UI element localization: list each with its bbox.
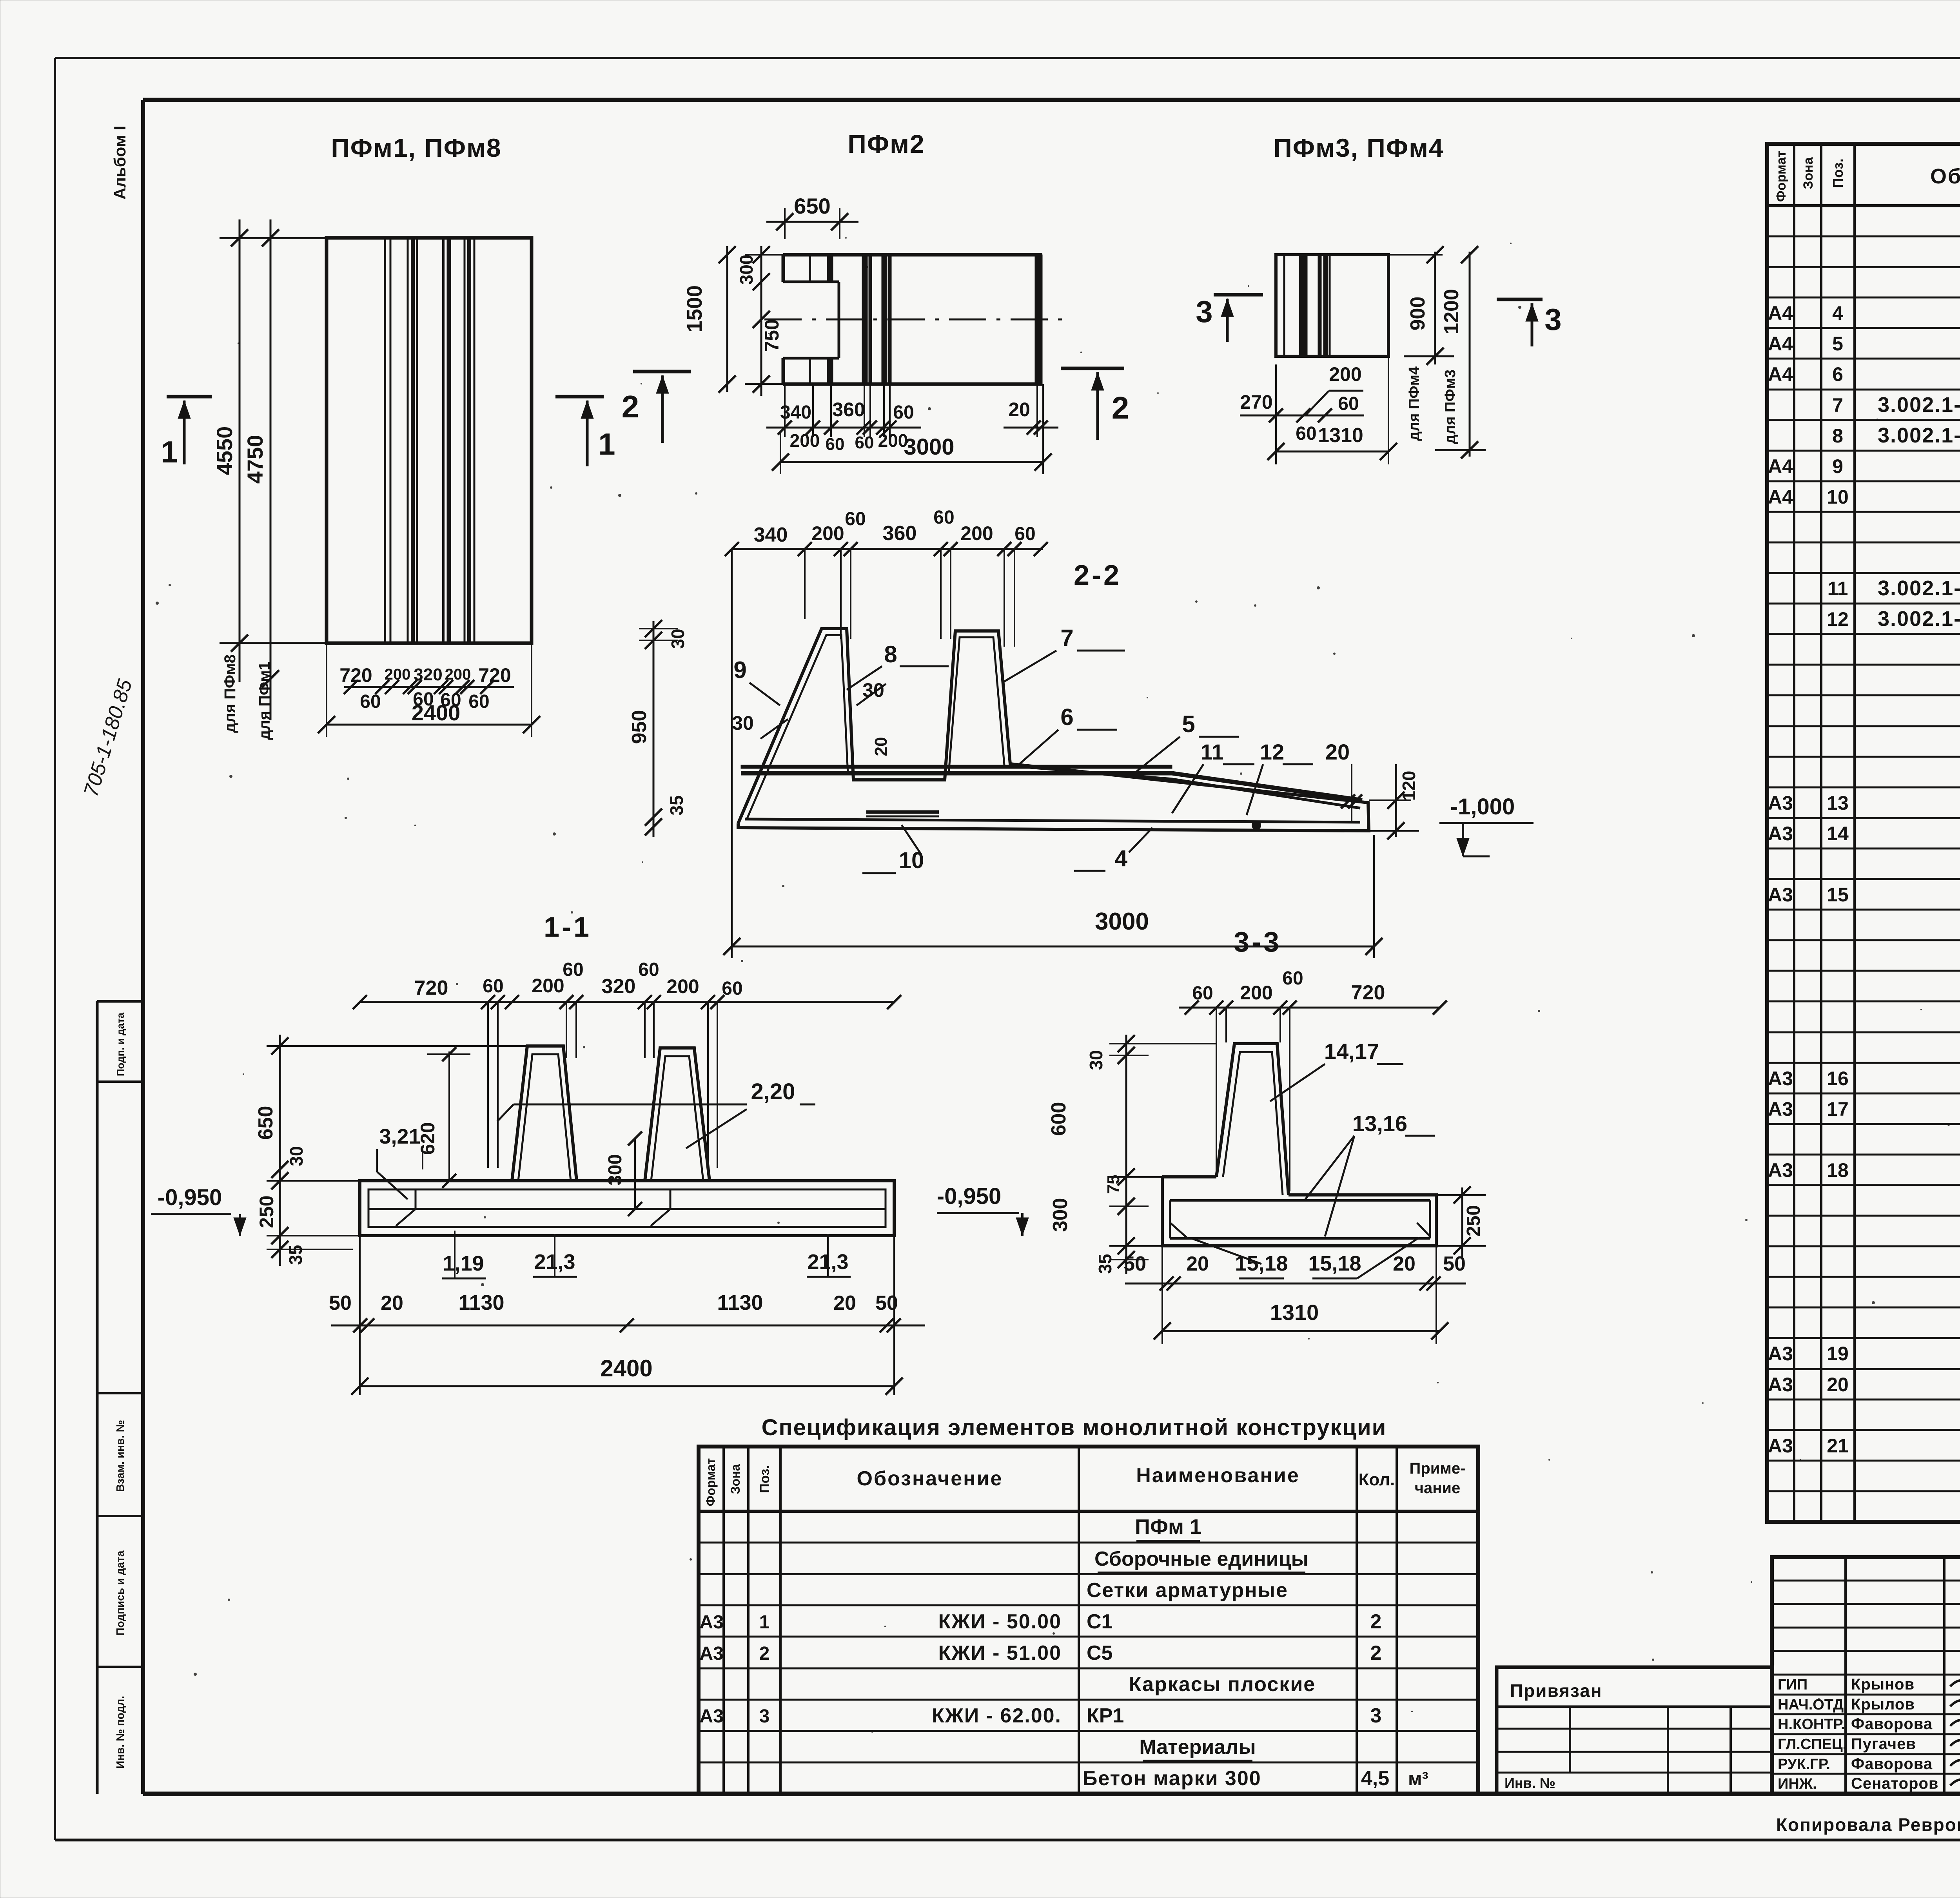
title PFm2 <box>848 129 925 158</box>
svg-text:7: 7 <box>1832 394 1843 416</box>
svg-text:21: 21 <box>1827 1435 1849 1457</box>
svg-text:1-1: 1-1 <box>544 912 592 943</box>
svg-text:300: 300 <box>605 1154 626 1186</box>
svg-text:13: 13 <box>1827 792 1849 814</box>
svg-text:Сетки арматурные: Сетки арматурные <box>1087 1579 1288 1602</box>
2-2 leader 11 <box>1172 740 1254 813</box>
2-2 top dimension row 340 200 60 360 60 200 60 <box>725 507 1048 647</box>
svg-text:Фаворова: Фаворова <box>1851 1715 1933 1733</box>
2-2 bottom dim 3000 <box>723 549 1383 958</box>
svg-text:Альбом I: Альбом I <box>111 126 129 199</box>
PFm2 bottom dims 200/60/60/200 and 3000 <box>772 384 1052 474</box>
2-2 right dim 120 <box>1369 764 1419 839</box>
svg-text:340: 340 <box>780 402 811 423</box>
svg-text:Формат: Формат <box>704 1458 718 1506</box>
svg-text:2: 2 <box>1370 1642 1382 1664</box>
svg-text:А4: А4 <box>1768 333 1793 355</box>
2-2 top mesh bars (dark) <box>741 765 1362 808</box>
svg-text:1: 1 <box>161 435 178 469</box>
2-2 leader 8 <box>847 641 949 690</box>
svg-text:11: 11 <box>1200 740 1223 764</box>
svg-text:60: 60 <box>893 402 914 423</box>
svg-text:С1: С1 <box>1087 1610 1112 1633</box>
svg-text:2,20: 2,20 <box>751 1079 795 1104</box>
svg-text:Привязан: Привязан <box>1510 1680 1602 1701</box>
svg-text:4: 4 <box>1115 846 1127 871</box>
PFm3/4 right dims 900 and 1200 <box>1388 246 1486 459</box>
svg-text:35: 35 <box>1095 1254 1115 1274</box>
svg-text:20: 20 <box>381 1292 403 1314</box>
2-2 leader 5 <box>1137 711 1239 771</box>
svg-text:Копировала Реврова: Копировала Реврова <box>1776 1815 1960 1835</box>
svg-text:14,17: 14,17 <box>1324 1039 1379 1064</box>
svg-text:900: 900 <box>1406 297 1429 331</box>
svg-text:3.002.1-1.2-130-08: 3.002.1-1.2-130-08 <box>1878 576 1960 600</box>
svg-text:8: 8 <box>1832 425 1843 447</box>
svg-text:650: 650 <box>254 1106 277 1140</box>
svg-text:Фаворова: Фаворова <box>1851 1755 1933 1773</box>
svg-text:для ПФм1: для ПФм1 <box>256 662 273 740</box>
svg-text:200: 200 <box>385 666 411 683</box>
svg-text:Крынов: Крынов <box>1851 1676 1915 1693</box>
section mark 3 (right) <box>1497 299 1562 346</box>
3-3 leader 13,16 <box>1305 1111 1435 1236</box>
svg-text:600: 600 <box>1047 1102 1070 1136</box>
spec table grid <box>699 1447 1478 1794</box>
2-2 level mark -1,000 <box>1439 794 1534 856</box>
svg-text:Сенаторов: Сенаторов <box>1851 1775 1939 1792</box>
title section 1-1 <box>544 912 592 943</box>
svg-text:30: 30 <box>1086 1050 1106 1070</box>
svg-text:м³: м³ <box>1408 1769 1428 1789</box>
1-1 level mark -0,950 <box>151 1185 246 1236</box>
right table headers <box>1774 151 1960 202</box>
svg-text:2: 2 <box>1112 390 1129 425</box>
svg-text:ПФм2: ПФм2 <box>848 129 925 158</box>
2-2 leader 9 <box>733 657 780 705</box>
section mark 3 (left) <box>1196 294 1263 342</box>
svg-text:270: 270 <box>1240 391 1272 413</box>
svg-text:А3: А3 <box>1768 1159 1793 1181</box>
svg-text:17: 17 <box>1827 1098 1849 1120</box>
svg-text:2: 2 <box>622 389 639 424</box>
svg-text:15: 15 <box>1827 884 1849 906</box>
svg-text:20: 20 <box>1186 1253 1209 1275</box>
svg-text:650: 650 <box>794 194 830 218</box>
svg-text:ГИП: ГИП <box>1778 1677 1808 1693</box>
section mark 2 (right of PFm2) <box>1061 368 1129 440</box>
svg-text:20: 20 <box>1008 399 1030 421</box>
svg-text:200: 200 <box>532 975 564 997</box>
1-1 column 1 trapezoid <box>512 1046 577 1181</box>
svg-text:30: 30 <box>732 712 754 734</box>
1-1 left dims 650 30 250 35 <box>254 1035 527 1266</box>
svg-text:Взам. инв. №: Взам. инв. № <box>114 1420 126 1492</box>
svg-text:НАЧ.ОТД.: НАЧ.ОТД. <box>1778 1697 1848 1713</box>
svg-text:20: 20 <box>871 737 891 756</box>
plate PFm3/PFm4 plan outline <box>1276 255 1388 356</box>
svg-text:13,16: 13,16 <box>1352 1111 1407 1136</box>
svg-text:КЖИ - 50.00: КЖИ - 50.00 <box>938 1610 1062 1633</box>
plate PFm2 plan outline <box>783 255 1042 384</box>
svg-text:9: 9 <box>733 657 746 683</box>
3-3 bottom leaders 15,18 <box>1192 1238 1419 1278</box>
svg-text:11: 11 <box>1828 578 1848 600</box>
svg-text:Обозначение: Обозначение <box>857 1467 1003 1490</box>
svg-text:1200: 1200 <box>1440 289 1463 334</box>
2-2 leader 7 <box>1004 625 1125 682</box>
2-2 wedge element outline <box>738 629 1369 831</box>
svg-text:для ПФм8: для ПФм8 <box>221 654 239 733</box>
svg-text:4,5: 4,5 <box>1361 1767 1389 1790</box>
1-1 column 2 trapezoid <box>645 1048 710 1181</box>
svg-text:Инв. № подл.: Инв. № подл. <box>114 1696 126 1769</box>
labels for PFm8 / PFm1 <box>220 643 327 740</box>
svg-text:250: 250 <box>256 1195 278 1228</box>
svg-text:Наименование: Наименование <box>1136 1464 1300 1487</box>
2-2 valley mesh <box>866 812 939 816</box>
svg-text:А3: А3 <box>1768 823 1793 845</box>
privyazan reference box <box>1497 1667 1772 1794</box>
svg-text:200: 200 <box>1240 982 1272 1004</box>
svg-text:А3: А3 <box>699 1643 723 1664</box>
svg-text:12: 12 <box>1260 740 1284 764</box>
svg-text:20: 20 <box>833 1292 856 1314</box>
svg-text:А3: А3 <box>1768 1374 1793 1396</box>
svg-text:60: 60 <box>483 976 503 997</box>
spec table rows content <box>699 1515 1428 1790</box>
svg-text:60: 60 <box>563 959 583 980</box>
margin text Album I <box>111 126 129 199</box>
svg-text:-0,950: -0,950 <box>158 1185 222 1210</box>
section mark 1 (right) <box>555 397 615 466</box>
svg-text:КЖИ - 62.00.: КЖИ - 62.00. <box>932 1704 1062 1727</box>
svg-text:35: 35 <box>285 1245 306 1265</box>
svg-text:-1,000: -1,000 <box>1450 794 1515 819</box>
svg-text:ПФм1, ПФм8: ПФм1, ПФм8 <box>331 133 501 162</box>
svg-text:360: 360 <box>883 522 917 545</box>
svg-text:320: 320 <box>414 665 442 684</box>
svg-text:РУК.ГР.: РУК.ГР. <box>1778 1756 1830 1773</box>
dim 4750 (left of plate) <box>243 219 279 720</box>
svg-text:250: 250 <box>1463 1205 1484 1236</box>
svg-text:Сборочные единицы: Сборочные единицы <box>1094 1548 1308 1570</box>
svg-text:Приме-: Приме- <box>1410 1460 1466 1477</box>
svg-text:КР1: КР1 <box>1087 1704 1124 1727</box>
svg-text:50: 50 <box>1123 1253 1146 1275</box>
spec table headers <box>704 1458 1465 1506</box>
svg-text:1310: 1310 <box>1318 424 1363 447</box>
svg-text:А3: А3 <box>1768 884 1793 906</box>
svg-text:Формат: Формат <box>1774 151 1789 202</box>
3-3 left dims 30 600 75 300 35 <box>1047 1035 1216 1274</box>
plate PFm2 joint bars <box>862 255 891 384</box>
dim 4550 (left of plate) <box>212 219 327 682</box>
3-3 slab outline <box>1162 1177 1436 1246</box>
svg-text:720: 720 <box>414 977 448 999</box>
svg-text:60: 60 <box>1282 968 1303 989</box>
1-1 anchor hooks in slab <box>396 1189 670 1226</box>
left margin strip (inv / signature cells) <box>97 1001 143 1794</box>
2-2 junction dot on bottom edge <box>1252 821 1261 830</box>
2-2 bottom mesh bar <box>745 819 1360 822</box>
2-2 leader 10 <box>862 825 924 873</box>
svg-text:Подп. и дата: Подп. и дата <box>114 1012 126 1076</box>
svg-text:Материалы: Материалы <box>1139 1736 1256 1758</box>
svg-text:3: 3 <box>1196 294 1212 329</box>
svg-text:1130: 1130 <box>458 1291 504 1314</box>
svg-text:1310: 1310 <box>1270 1300 1319 1325</box>
svg-text:30: 30 <box>668 629 688 649</box>
svg-text:320: 320 <box>602 975 636 998</box>
svg-text:60: 60 <box>1014 524 1035 544</box>
1-1 base slab <box>360 1181 894 1236</box>
svg-text:20: 20 <box>1827 1374 1849 1396</box>
title block revision grid <box>1772 1557 1960 1675</box>
svg-text:А3: А3 <box>699 1706 723 1727</box>
svg-text:60: 60 <box>933 507 954 528</box>
title PFm3, PFm4 <box>1273 133 1444 162</box>
svg-text:950: 950 <box>628 710 651 744</box>
svg-text:2: 2 <box>1370 1610 1382 1633</box>
svg-text:КЖИ - 51.00: КЖИ - 51.00 <box>938 1642 1062 1664</box>
svg-text:4550: 4550 <box>212 426 237 475</box>
svg-text:Зона: Зона <box>1801 157 1816 189</box>
2-2 slope marks 30 <box>732 679 891 756</box>
svg-text:4: 4 <box>1832 302 1843 324</box>
svg-text:1500: 1500 <box>683 285 706 332</box>
svg-text:3000: 3000 <box>1095 908 1149 935</box>
svg-text:3,21: 3,21 <box>379 1125 420 1148</box>
svg-text:340: 340 <box>754 524 788 546</box>
title block personnel rows <box>1772 1675 1960 1794</box>
svg-text:200: 200 <box>960 522 993 544</box>
1-1 total dim 2400 <box>351 1355 903 1395</box>
svg-text:10: 10 <box>1827 486 1849 508</box>
svg-text:50: 50 <box>1443 1253 1466 1275</box>
svg-text:3.002.1-1.2-120-06: 3.002.1-1.2-120-06 <box>1878 393 1960 417</box>
svg-text:200: 200 <box>1329 363 1361 385</box>
svg-text:300: 300 <box>736 255 757 285</box>
svg-text:для ПФм4: для ПФм4 <box>1406 366 1423 441</box>
2-2 left dims 30 950 35 <box>628 620 688 837</box>
margin handwritten 705-1-180.85 <box>80 676 137 799</box>
svg-text:60: 60 <box>826 435 845 454</box>
svg-text:2400: 2400 <box>412 700 461 725</box>
svg-text:20: 20 <box>1393 1253 1416 1275</box>
1-1 top dim row 720 60 200 60 320 60 200 60 <box>353 959 901 1168</box>
3-3 leader 14,17 <box>1270 1039 1403 1101</box>
svg-text:А4: А4 <box>1768 302 1793 324</box>
1-1 leader 3,21 <box>377 1125 423 1199</box>
svg-text:30: 30 <box>286 1146 307 1166</box>
title section 3-3 <box>1234 926 1281 958</box>
dim 650 above PFm2 <box>766 194 858 239</box>
svg-text:1: 1 <box>759 1612 770 1633</box>
spec table title <box>762 1415 1387 1440</box>
plate PFm1 internal joint lines <box>385 238 474 643</box>
svg-text:60: 60 <box>1338 393 1359 414</box>
svg-text:750: 750 <box>761 319 783 352</box>
svg-text:Пугачев: Пугачев <box>1851 1735 1916 1753</box>
svg-text:Обозначение: Обозначение <box>1930 165 1960 188</box>
svg-text:720: 720 <box>339 664 372 686</box>
section mark 2 (left of PFm2) <box>622 372 691 443</box>
title PFm1, PFm8 <box>331 133 501 162</box>
svg-text:19: 19 <box>1827 1343 1849 1365</box>
svg-text:200: 200 <box>445 666 471 683</box>
3-3 column trapezoid <box>1216 1044 1289 1195</box>
section mark 1 (left) <box>161 397 212 469</box>
svg-text:5: 5 <box>1832 333 1843 355</box>
svg-text:60: 60 <box>722 978 742 999</box>
svg-text:20: 20 <box>1325 740 1350 764</box>
3-3 top dim row 60 200 60 720 <box>1179 968 1447 1191</box>
svg-text:Зона: Зона <box>728 1464 742 1494</box>
svg-text:60: 60 <box>468 691 489 712</box>
2-2 leader 4 <box>1074 828 1152 871</box>
plate PFm1/PFm8 plan outline <box>327 238 532 643</box>
svg-text:ГЛ.СПЕЦ.: ГЛ.СПЕЦ. <box>1778 1736 1847 1753</box>
3-3 total dim 1310 <box>1154 1300 1448 1340</box>
svg-text:18: 18 <box>1827 1159 1849 1181</box>
svg-text:Бетон марки 300: Бетон марки 300 <box>1083 1767 1261 1790</box>
svg-text:360: 360 <box>832 399 865 421</box>
right table rows content <box>1768 209 1960 1518</box>
1-1 bottom leaders 1,19 / 21,3 / 21,3 <box>442 1231 851 1278</box>
3-3 slab inner mesh <box>1170 1200 1430 1238</box>
svg-text:3: 3 <box>759 1706 770 1727</box>
svg-text:3.002.1-1.2-130-06: 3.002.1-1.2-130-06 <box>1878 607 1960 631</box>
svg-text:Инв. №: Инв. № <box>1504 1775 1555 1791</box>
svg-text:А4: А4 <box>1768 455 1793 477</box>
svg-text:А3: А3 <box>1768 1435 1793 1457</box>
svg-text:А4: А4 <box>1768 486 1793 508</box>
2-2 leader 6 <box>1019 704 1117 764</box>
svg-text:Н.КОНТР.: Н.КОНТР. <box>1778 1716 1845 1733</box>
1-1 bottom dim row 50 20 1130 1130 20 50 <box>329 1236 925 1395</box>
svg-text:Каркасы плоские: Каркасы плоские <box>1129 1673 1316 1696</box>
scan speckle dots <box>156 122 1960 1733</box>
1-1 dim 300 rotated <box>605 1131 642 1216</box>
svg-text:А3: А3 <box>1768 1343 1793 1365</box>
svg-text:3-3: 3-3 <box>1234 926 1281 958</box>
svg-text:чание: чание <box>1415 1479 1460 1497</box>
svg-text:14: 14 <box>1827 823 1849 845</box>
svg-text:4750: 4750 <box>243 435 267 484</box>
right table grid <box>1767 100 1960 1522</box>
svg-text:А4: А4 <box>1768 363 1793 385</box>
svg-text:60: 60 <box>1296 423 1316 444</box>
svg-text:Кол.: Кол. <box>1359 1470 1395 1489</box>
svg-text:ИНЖ.: ИНЖ. <box>1778 1776 1817 1792</box>
dims under plate: 720 200 320 200 720 / 60s / 2400 <box>318 643 540 737</box>
svg-text:60: 60 <box>638 959 659 980</box>
svg-text:12: 12 <box>1827 608 1849 630</box>
svg-text:1: 1 <box>598 427 615 461</box>
svg-text:2: 2 <box>759 1643 770 1664</box>
footer copied-by line <box>1776 1815 1960 1835</box>
svg-text:Поз.: Поз. <box>1830 158 1846 188</box>
svg-text:3: 3 <box>1370 1704 1382 1727</box>
svg-text:А3: А3 <box>699 1612 723 1633</box>
svg-text:120: 120 <box>1399 771 1419 801</box>
title block outline <box>1772 1557 1960 1794</box>
svg-text:200: 200 <box>790 430 820 451</box>
svg-text:15,18: 15,18 <box>1308 1252 1361 1275</box>
svg-text:200: 200 <box>666 975 699 997</box>
3-3 level mark -0,950 <box>937 1184 1029 1236</box>
svg-text:9: 9 <box>1832 455 1843 477</box>
2-2 dim 20 at right end <box>1325 740 1362 823</box>
svg-text:6: 6 <box>1832 363 1843 385</box>
svg-text:3: 3 <box>1544 302 1561 337</box>
svg-text:А3: А3 <box>1768 792 1793 814</box>
svg-text:720: 720 <box>1351 981 1385 1004</box>
svg-text:50: 50 <box>329 1292 352 1314</box>
svg-text:1130: 1130 <box>717 1291 763 1314</box>
svg-text:для ПФм3: для ПФм3 <box>1442 370 1459 444</box>
svg-text:Крылов: Крылов <box>1851 1696 1915 1713</box>
PFm3/4 bottom dims 200 60 270 60 1310 <box>1240 356 1397 464</box>
svg-text:60: 60 <box>360 691 381 712</box>
svg-text:Спецификация элементов монолит: Спецификация элементов монолитной констр… <box>762 1415 1387 1440</box>
PFm2 left dims 300 1500 750 <box>683 246 783 396</box>
svg-text:5: 5 <box>1182 711 1195 737</box>
svg-text:-0,950: -0,950 <box>937 1184 1001 1209</box>
svg-text:3.002.1-1.2-110-08: 3.002.1-1.2-110-08 <box>1878 424 1960 447</box>
svg-text:35: 35 <box>666 795 687 815</box>
svg-text:Поз.: Поз. <box>757 1465 772 1493</box>
svg-text:60: 60 <box>845 509 866 529</box>
svg-text:2-2: 2-2 <box>1074 560 1122 591</box>
svg-text:720: 720 <box>478 664 511 686</box>
svg-text:А3: А3 <box>1768 1098 1793 1120</box>
title section 2-2 <box>1074 560 1122 591</box>
1-1 leader 2,20 <box>497 1079 815 1148</box>
1-1 dim 620 rotated <box>417 1047 470 1188</box>
PFm2 bottom dims 340/360/60/20 row <box>766 386 1058 437</box>
svg-text:3000: 3000 <box>904 434 954 460</box>
svg-text:300: 300 <box>1049 1198 1072 1232</box>
svg-text:16: 16 <box>1827 1068 1849 1089</box>
svg-text:60: 60 <box>1192 983 1213 1004</box>
PFm2 centerline <box>764 319 1072 321</box>
svg-text:200: 200 <box>811 522 844 544</box>
svg-text:2400: 2400 <box>600 1355 652 1381</box>
svg-text:Подпись и дата: Подпись и дата <box>114 1550 126 1635</box>
svg-text:А3: А3 <box>1768 1068 1793 1089</box>
svg-text:7: 7 <box>1060 625 1073 651</box>
svg-text:8: 8 <box>884 641 897 667</box>
svg-text:60: 60 <box>855 433 874 452</box>
svg-text:6: 6 <box>1060 704 1073 730</box>
svg-text:1,19: 1,19 <box>443 1252 484 1275</box>
svg-text:ПФм 1: ПФм 1 <box>1135 1515 1201 1539</box>
2-2 leader 12 <box>1247 740 1313 815</box>
svg-text:С5: С5 <box>1087 1642 1112 1664</box>
svg-text:ПФм3, ПФм4: ПФм3, ПФм4 <box>1273 133 1444 162</box>
3-3 bottom dim row 50 20 20 50 <box>1123 1246 1466 1344</box>
3-3 right dim 250 <box>1436 1186 1486 1258</box>
